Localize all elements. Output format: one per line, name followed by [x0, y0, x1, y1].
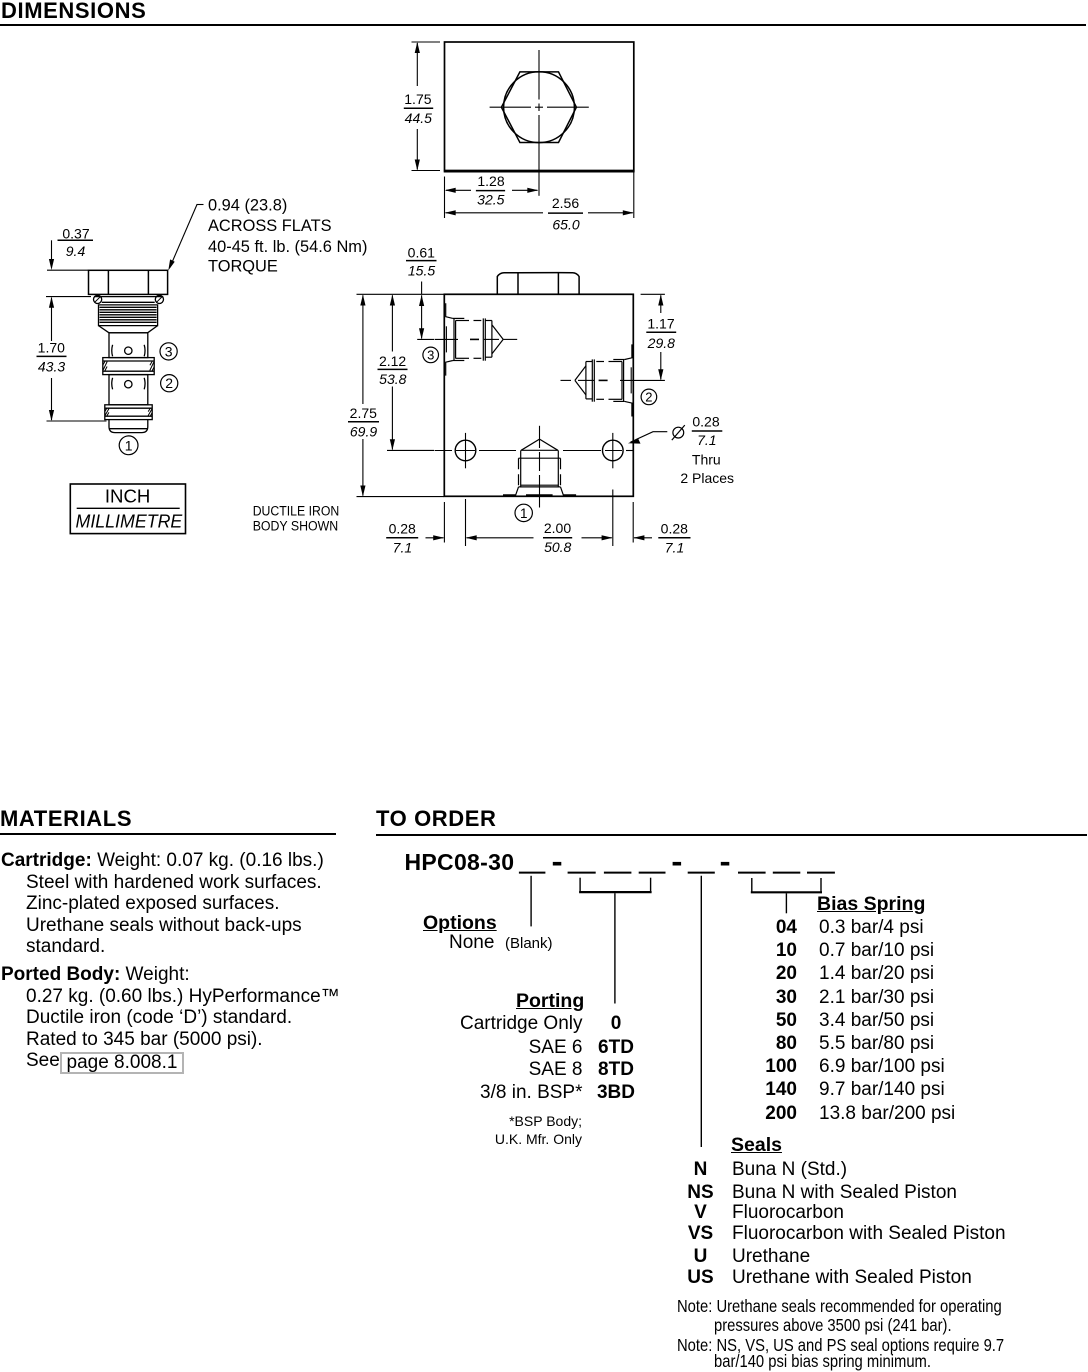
side view: port 1 centerline — [539, 426, 541, 508]
cartridge port label circle 3 — [160, 343, 177, 360]
svg-text:43.3: 43.3 — [38, 358, 65, 374]
cartridge: thread-to-body taper — [99, 326, 158, 333]
connector: bias spring bracket — [751, 878, 822, 913]
svg-text:2.00: 2.00 — [544, 520, 571, 536]
order code dash 1 — [553, 862, 562, 866]
order code dash 2 — [673, 862, 682, 866]
svg-text:44.5: 44.5 — [405, 110, 432, 126]
svg-text:7.1: 7.1 — [665, 539, 684, 555]
svg-text:2: 2 — [165, 375, 173, 391]
svg-text:2: 2 — [645, 390, 652, 405]
svg-text:1: 1 — [125, 438, 133, 454]
svg-text:3: 3 — [427, 348, 434, 363]
top view: horizontal centerline — [490, 106, 589, 108]
svg-text:1: 1 — [520, 506, 528, 521]
connector: options line — [530, 876, 532, 927]
connector: seals line — [700, 876, 702, 1147]
order code blanks: bias spring — [738, 872, 835, 874]
svg-text:DUCTILE IRON: DUCTILE IRON — [253, 503, 340, 518]
cartridge: nose — [109, 420, 148, 433]
seals — [731, 1134, 782, 1157]
side view: top face extension line — [357, 293, 444, 295]
svg-text:2.56: 2.56 — [552, 195, 579, 211]
top view: cartridge hex nut — [501, 72, 576, 143]
svg-text:Thru: Thru — [692, 452, 721, 468]
svg-text:69.9: 69.9 — [350, 424, 377, 440]
diameter symbol — [672, 425, 685, 440]
svg-text:9.4: 9.4 — [66, 243, 86, 259]
svg-text:0.37: 0.37 — [62, 225, 89, 241]
svg-text:1.17: 1.17 — [647, 315, 674, 331]
svg-text:0.94 (23.8): 0.94 (23.8) — [208, 197, 287, 215]
svg-text:0.61: 0.61 — [408, 244, 435, 260]
diameter note 0.28/7.1 thru 2 places — [680, 414, 734, 487]
svg-text:ACROSS FLATS: ACROSS FLATS — [208, 217, 332, 235]
cartridge: hex head — [89, 270, 168, 294]
order code blanks: porting — [568, 872, 666, 874]
side view port label circle 3 — [423, 347, 439, 363]
side view: port 3 centerline — [435, 338, 518, 340]
side view: port 1 (bottom port) — [503, 439, 576, 495]
svg-text:TORQUE: TORQUE — [208, 257, 278, 275]
cartridge: threaded section — [99, 305, 158, 326]
dimension 1.70/43.3 (cartridge length) — [37, 297, 107, 421]
ductile iron note — [253, 503, 340, 533]
svg-text:1.70: 1.70 — [38, 339, 65, 355]
bias spring — [817, 893, 925, 916]
svg-text:29.8: 29.8 — [647, 335, 675, 351]
dimension 0.61/15.5 (port 3 centre height) — [406, 261, 437, 340]
dimension 2.75/69.9 (body height) — [348, 295, 444, 497]
dimension 1.28/32.5 (top view, hex offset) — [445, 177, 539, 219]
svg-text:2 Places: 2 Places — [680, 470, 734, 486]
svg-text:2.12: 2.12 — [379, 353, 406, 369]
dimension 1.17/29.8 (port 2 centre height) — [641, 294, 677, 380]
svg-text:7.1: 7.1 — [697, 432, 716, 448]
svg-text:0.28: 0.28 — [389, 520, 416, 536]
svg-text:BODY SHOWN: BODY SHOWN — [253, 518, 339, 533]
svg-text:32.5: 32.5 — [477, 192, 504, 208]
svg-text:7.1: 7.1 — [393, 539, 412, 555]
side view: left mounting hole — [455, 433, 476, 468]
dimension 2.56/65.0 (top view width) — [445, 173, 634, 219]
top view: cartridge circle (thread circle) — [504, 72, 575, 143]
svg-text:65.0: 65.0 — [552, 216, 579, 232]
side view: cartridge hex protruding on top — [497, 273, 579, 295]
order code blank: seals — [688, 872, 715, 874]
torque note text — [208, 197, 367, 276]
cartridge: backup washer with seal — [94, 295, 164, 303]
top view: valve body plan rectangle — [444, 42, 635, 172]
svg-text:3: 3 — [165, 343, 173, 359]
bottom extension lines — [444, 490, 633, 547]
order code blank: options — [519, 872, 546, 874]
svg-text:50.8: 50.8 — [544, 539, 571, 555]
options label — [423, 912, 497, 935]
side view: port 2 (right SAE port) — [575, 344, 632, 416]
cartridge: lower body (port 2 zone) — [109, 375, 148, 405]
cartridge port label circle 1 — [119, 436, 138, 455]
side view port label circle 2 — [641, 389, 657, 405]
side view: port 3 (left SAE port) — [446, 303, 504, 375]
porting — [516, 990, 584, 1013]
svg-text:MILLIMETRE: MILLIMETRE — [76, 510, 183, 531]
svg-text:2.75: 2.75 — [350, 405, 377, 421]
cartridge: upper o-ring land — [103, 358, 154, 375]
svg-text:1.28: 1.28 — [477, 173, 504, 189]
svg-text:40-45 ft. lb. (54.6 Nm): 40-45 ft. lb. (54.6 Nm) — [208, 238, 367, 256]
side view: ported body outline — [444, 294, 633, 496]
side view: right mounting hole — [603, 433, 624, 468]
cartridge: upper body (port 3 zone) — [109, 333, 148, 358]
dimension 0.28/7.1 right — [633, 535, 690, 540]
side view: port 2 centerline — [561, 379, 665, 381]
dimension 2.00/50.8 (hole spacing) — [466, 535, 613, 540]
svg-text:15.5: 15.5 — [408, 263, 435, 279]
top view: vertical centerline — [538, 50, 540, 196]
cartridge port label circle 2 — [161, 375, 178, 392]
leader for 0.94 across flats note — [168, 205, 203, 271]
diameter note leader arrow — [628, 432, 667, 444]
side view: horizontal hole centerline — [435, 450, 634, 452]
svg-text:0.28: 0.28 — [692, 414, 719, 430]
notes — [677, 1296, 1002, 1317]
dimension 2.12/53.8 (hole centre height) — [378, 295, 435, 451]
dimension 0.28/7.1 left — [386, 535, 444, 540]
svg-text:53.8: 53.8 — [379, 371, 406, 387]
side view port label circle 1 — [515, 504, 532, 521]
svg-text:0.28: 0.28 — [661, 520, 688, 536]
inch/millimetre legend box — [70, 484, 185, 534]
svg-text:INCH: INCH — [105, 486, 150, 507]
order code dash 3 — [721, 862, 730, 866]
connector: porting bracket — [579, 878, 652, 1004]
cartridge: lower o-ring land — [105, 405, 152, 420]
dimension 1.75/44.5 (top view height) — [404, 42, 440, 171]
dimension 0.37/9.4 (hex height) — [47, 240, 93, 270]
svg-text:1.75: 1.75 — [404, 91, 431, 107]
